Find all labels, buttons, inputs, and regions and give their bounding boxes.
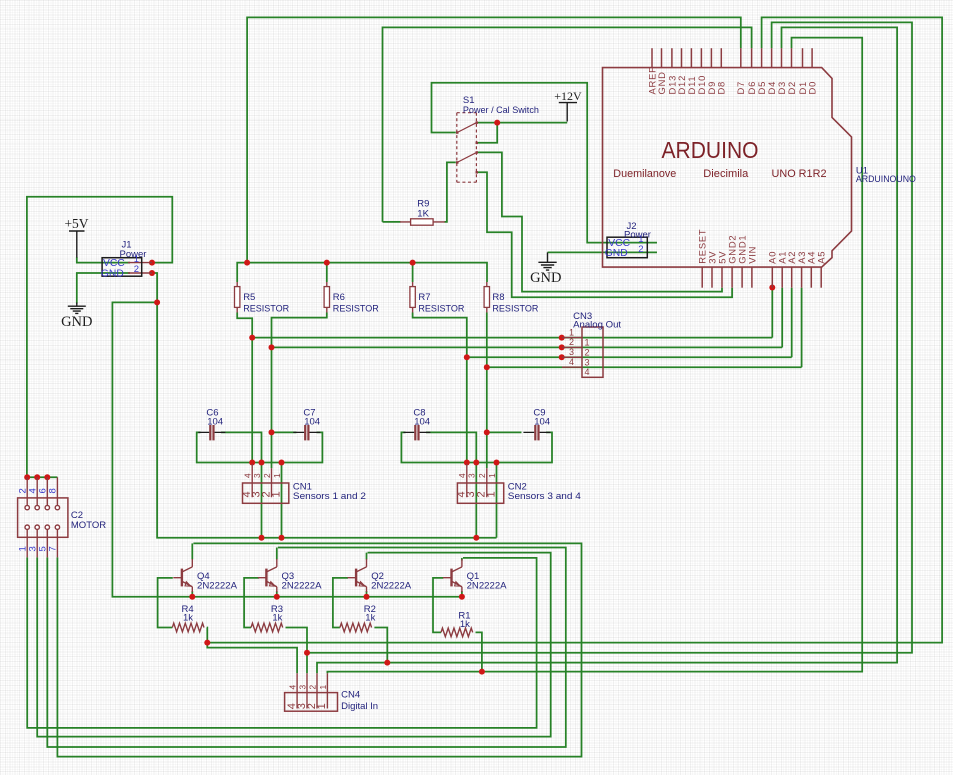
svg-text:RESISTOR: RESISTOR bbox=[492, 303, 538, 314]
junction J1 pin1 bbox=[149, 260, 155, 266]
wire J1 pin1 loop to C2 top bbox=[27, 197, 172, 478]
wire D5 to base drive line 1 bbox=[207, 17, 942, 642]
transistor Q1 bbox=[443, 559, 462, 592]
svg-text:R6: R6 bbox=[333, 292, 345, 303]
pin D4 of U1 bbox=[771, 48, 773, 67]
wire Q2 collector riser bbox=[366, 553, 368, 560]
wire R7 bottom to CN2 pin4 bbox=[413, 313, 467, 463]
wire C8 right lead to CN2 pin3 bbox=[426, 432, 476, 537]
pin D2 of U1 bbox=[791, 48, 793, 67]
wire Q4 collector riser bbox=[191, 543, 193, 559]
wire A0 drop bbox=[771, 288, 773, 338]
svg-text:1: 1 bbox=[270, 491, 282, 497]
junction CN3 pin1 bbox=[559, 335, 565, 341]
wire Q3 collector riser bbox=[276, 548, 278, 560]
svg-text:104: 104 bbox=[414, 416, 430, 427]
junction cap rail CN1 pin1 bbox=[279, 460, 285, 466]
connector CN3 bbox=[562, 327, 603, 377]
wire D4 to base drive line 2 bbox=[307, 22, 912, 652]
junction +12V node bbox=[494, 120, 500, 126]
svg-text:Sensors 1 and 2: Sensors 1 and 2 bbox=[293, 491, 366, 502]
svg-text:VCC: VCC bbox=[103, 258, 125, 269]
wire Q4 base to R4 bbox=[158, 578, 173, 628]
junction CN3 pin3 bbox=[559, 354, 565, 360]
svg-text:R8: R8 bbox=[492, 292, 504, 303]
junction ground rail CN1 pin3 bbox=[259, 535, 265, 541]
connector CN2 bbox=[457, 464, 503, 503]
svg-text:Digital In: Digital In bbox=[341, 701, 378, 712]
wire R6 top stub bbox=[326, 263, 328, 282]
pin RESET of U1 bbox=[701, 267, 703, 288]
wire Q3 emitter drop bbox=[276, 591, 278, 597]
wire C7 left lead from junction bbox=[272, 431, 297, 433]
pin D1 of U1 bbox=[802, 48, 804, 67]
junction R5 on analog rail1 bbox=[249, 335, 255, 341]
junction C7 left lead bbox=[269, 429, 275, 435]
wire R1 leg to drive line 4 bbox=[476, 632, 482, 671]
svg-text:2N2222A: 2N2222A bbox=[371, 580, 412, 591]
svg-text:RESISTOR: RESISTOR bbox=[333, 303, 379, 314]
svg-text:D2: D2 bbox=[786, 81, 797, 95]
pin D10 of U1 bbox=[700, 48, 702, 67]
svg-text:GND: GND bbox=[101, 268, 124, 279]
svg-text:+5V: +5V bbox=[64, 216, 88, 231]
resistor R3 bbox=[251, 623, 283, 632]
pin D5 of U1 bbox=[761, 48, 763, 67]
junction C2 pin4 bbox=[34, 474, 40, 480]
svg-text:1k: 1k bbox=[460, 619, 470, 630]
svg-text:104: 104 bbox=[534, 416, 550, 427]
wire C8 left loop to cap rail bbox=[401, 432, 552, 462]
capacitor C6 bbox=[198, 425, 225, 440]
wire GND branch left and down to emitter rail bbox=[112, 302, 462, 596]
svg-text:1: 1 bbox=[487, 473, 497, 478]
junction R7 on analog rail3 bbox=[464, 354, 470, 360]
junction R4 drive line bbox=[204, 640, 210, 646]
wire C6 left loop to cap rail bbox=[197, 432, 323, 462]
wire Q2 base to R2 bbox=[333, 578, 348, 628]
pin D9 of U1 bbox=[710, 48, 712, 67]
wire C2 pin1 to Q1 collector loop bbox=[27, 557, 536, 728]
junction Q3 emitter bbox=[274, 594, 280, 600]
svg-text:2N2222A: 2N2222A bbox=[467, 580, 508, 591]
wire S1 upper contact to +12V bbox=[478, 122, 567, 124]
svg-text:GND: GND bbox=[530, 270, 561, 286]
svg-text:1k: 1k bbox=[272, 613, 282, 624]
junction C2 pin2 bbox=[24, 474, 30, 480]
pin D0 of U1 bbox=[811, 48, 813, 67]
junction R8 on analog rail4 bbox=[484, 364, 490, 370]
svg-text:4: 4 bbox=[585, 367, 590, 377]
wire R2 leg to drive line 3 bbox=[374, 628, 387, 663]
pin A5 of U1 bbox=[820, 267, 822, 288]
svg-text:2: 2 bbox=[262, 473, 272, 478]
junction ground rail CN1 pin1 bbox=[279, 535, 285, 541]
svg-text:104: 104 bbox=[304, 416, 320, 427]
resistor R2 bbox=[340, 623, 372, 632]
junction R2 drive line bbox=[384, 660, 390, 666]
resistor R4 bbox=[172, 623, 204, 632]
pin AREF of U1 bbox=[651, 48, 653, 67]
svg-text:RESISTOR: RESISTOR bbox=[418, 303, 464, 314]
wire R6 bottom to CN1 pin2 bbox=[272, 313, 327, 469]
resistor R8 bbox=[484, 282, 489, 313]
svg-text:2: 2 bbox=[638, 244, 643, 255]
svg-text:1k: 1k bbox=[365, 613, 375, 624]
svg-text:+12V: +12V bbox=[554, 89, 582, 103]
wire R9 right to S1 lower pole bbox=[445, 162, 456, 222]
wire R4 leg to CN4 pin4 bbox=[207, 628, 297, 674]
svg-text:4: 4 bbox=[569, 357, 574, 367]
svg-text:Analog Out: Analog Out bbox=[573, 319, 621, 330]
wire CN1 pin1 drop bbox=[281, 463, 283, 538]
svg-text:Sensors 3 and 4: Sensors 3 and 4 bbox=[508, 491, 581, 502]
capacitor C7 bbox=[293, 425, 320, 440]
svg-text:D7: D7 bbox=[735, 81, 746, 95]
junction GND branch bbox=[154, 299, 160, 305]
svg-text:2: 2 bbox=[585, 347, 590, 357]
pin 5V of U1 bbox=[721, 267, 723, 288]
svg-text:3: 3 bbox=[297, 685, 307, 690]
connector C2 bbox=[18, 477, 68, 557]
svg-text:1: 1 bbox=[585, 338, 590, 348]
wire R8 bottom to CN2 pin2 bbox=[486, 313, 488, 469]
resistor R1 bbox=[441, 628, 473, 637]
svg-text:Power / Cal Switch: Power / Cal Switch bbox=[463, 105, 539, 116]
svg-text:1: 1 bbox=[316, 703, 328, 709]
svg-text:3: 3 bbox=[467, 473, 477, 478]
junction Q2 emitter bbox=[364, 594, 370, 600]
wire A3 drop bbox=[801, 288, 803, 368]
junction cap rail CN2 pin3 bbox=[473, 460, 479, 466]
wire R7 top stub bbox=[412, 263, 414, 282]
pin D13 of U1 bbox=[671, 48, 673, 67]
svg-text:1: 1 bbox=[485, 491, 497, 497]
wire Q1 base to R1 bbox=[433, 578, 443, 633]
svg-text:GND: GND bbox=[605, 248, 628, 259]
connector J1 bbox=[102, 258, 152, 277]
junction Q1 emitter bbox=[459, 594, 465, 600]
junction CN3 pin2 bbox=[559, 344, 565, 350]
module U1 ARDUINOUNO board outline bbox=[603, 68, 852, 268]
junction cap rail CN1 pin3 bbox=[259, 460, 265, 466]
resistor R7 bbox=[410, 282, 415, 313]
connector J2 bbox=[607, 237, 647, 258]
wire Q3 base to R3 bbox=[244, 578, 259, 628]
junction J1 pin2 bbox=[149, 270, 155, 276]
svg-text:8: 8 bbox=[48, 488, 59, 493]
pin GND2 of U1 bbox=[731, 267, 733, 288]
svg-text:2: 2 bbox=[307, 685, 317, 690]
wire J1 GND to ground symbol bbox=[77, 273, 130, 304]
junction cap rail CN2 pin4 bbox=[464, 460, 470, 466]
wire resistor top rail R5-R8 bbox=[237, 263, 487, 282]
svg-text:MOTOR: MOTOR bbox=[71, 520, 106, 531]
svg-text:2: 2 bbox=[134, 264, 139, 275]
junction cap rail CN2 pin1 bbox=[494, 460, 500, 466]
ground symbol GND near J2 bbox=[538, 252, 556, 270]
pin D7 of U1 bbox=[740, 48, 742, 67]
svg-text:2N2222A: 2N2222A bbox=[197, 580, 238, 591]
svg-text:2: 2 bbox=[569, 337, 574, 347]
svg-text:4: 4 bbox=[457, 473, 467, 478]
wire R5 bottom to CN1 pin4 bbox=[237, 313, 252, 463]
svg-text:D8: D8 bbox=[716, 81, 727, 95]
svg-text:104: 104 bbox=[207, 416, 223, 427]
pin A3 of U1 bbox=[801, 267, 803, 288]
svg-text:R7: R7 bbox=[418, 292, 430, 303]
svg-text:Diecimila: Diecimila bbox=[703, 168, 748, 180]
svg-text:1: 1 bbox=[318, 685, 328, 690]
transistor Q3 bbox=[258, 559, 277, 592]
wire C9 left lead from junction bbox=[487, 431, 522, 433]
wire S1 lower contact2 to GND2 pin bbox=[478, 172, 732, 297]
pin D3 of U1 bbox=[781, 48, 783, 67]
capacitor C9 bbox=[523, 425, 550, 440]
svg-text:2: 2 bbox=[477, 473, 487, 478]
wire A2 drop bbox=[791, 288, 793, 358]
svg-text:Duemilanove: Duemilanove bbox=[613, 168, 676, 180]
wire GND symbol to J2 GND bbox=[548, 251, 658, 253]
pin D12 of U1 bbox=[681, 48, 683, 67]
wire A1 drop bbox=[781, 288, 783, 348]
wire R9 left lead bbox=[383, 221, 401, 223]
pin A1 of U1 bbox=[781, 267, 783, 288]
svg-text:1k: 1k bbox=[183, 613, 193, 624]
svg-text:1: 1 bbox=[272, 473, 282, 478]
svg-text:RESISTOR: RESISTOR bbox=[243, 303, 289, 314]
wire Q4 emitter drop bbox=[191, 591, 193, 597]
junction R6 top bbox=[324, 260, 330, 266]
svg-text:1K: 1K bbox=[417, 209, 429, 220]
junction C9 left lead bbox=[484, 429, 490, 435]
pin D11 of U1 bbox=[690, 48, 692, 67]
wire Q2 emitter drop bbox=[366, 591, 368, 597]
wire C2 pin3 to Q2 collector loop bbox=[37, 553, 551, 737]
pin A2 of U1 bbox=[791, 267, 793, 288]
transistor Q2 bbox=[348, 559, 367, 592]
resistor R5 bbox=[235, 282, 240, 313]
wire D6 to R9 bbox=[383, 27, 752, 222]
wire analog rail 1 to A0 bbox=[252, 337, 772, 339]
junction cap rail CN1 pin4 bbox=[249, 460, 255, 466]
junction R7 top bbox=[410, 260, 416, 266]
power +5V supply symbol bbox=[69, 231, 85, 258]
wire S1 lower contact1 to 5V pin bbox=[478, 152, 722, 291]
svg-text:2N2222A: 2N2222A bbox=[282, 580, 323, 591]
junction R1 drive line bbox=[479, 669, 485, 675]
pin A4 of U1 bbox=[810, 267, 812, 288]
svg-text:3: 3 bbox=[569, 347, 574, 357]
wire C2 pin5 to Q3 collector loop bbox=[47, 548, 566, 748]
resistor R9 bbox=[400, 219, 445, 225]
wire C6 right lead to CN1 pin3 bbox=[221, 432, 262, 537]
wire analog rail 4 to A3 bbox=[487, 366, 802, 368]
svg-text:A5: A5 bbox=[816, 251, 827, 264]
pin 3V of U1 bbox=[711, 267, 713, 288]
svg-text:VIN: VIN bbox=[746, 246, 757, 264]
wire Q1 emitter drop bbox=[461, 591, 463, 597]
resistor R6 bbox=[324, 282, 329, 313]
wire R3 leg to CN4 pin3 bbox=[286, 628, 308, 674]
pin D8 of U1 bbox=[720, 48, 722, 67]
switch S1 bbox=[456, 113, 478, 183]
junction Q4 emitter bbox=[189, 594, 195, 600]
pin GND of U1 bbox=[661, 48, 663, 67]
junction A0 pin bbox=[769, 285, 775, 291]
wire S1 upper contact link bbox=[478, 123, 497, 143]
svg-text:ARDUINO: ARDUINO bbox=[662, 137, 759, 163]
svg-text:R5: R5 bbox=[243, 292, 255, 303]
wire D7 top loop to resistor rail bbox=[247, 17, 741, 262]
wire analog rail 2 to A1 bbox=[272, 346, 783, 348]
junction R3 drive line bbox=[304, 650, 310, 656]
svg-text:ARDUINOUNO: ARDUINOUNO bbox=[856, 174, 916, 185]
pin GND1 of U1 bbox=[741, 267, 743, 288]
svg-text:UNO R1R2: UNO R1R2 bbox=[772, 168, 827, 180]
wire +5V to J1 VCC bbox=[77, 257, 130, 263]
wire C2 top pin rail bbox=[27, 476, 58, 478]
wire analog rail 3 to A2 bbox=[467, 356, 792, 358]
wire C2 pin7 to Q4 collector loop bbox=[57, 543, 581, 756]
capacitor C8 bbox=[403, 425, 430, 440]
pin VIN of U1 bbox=[751, 267, 753, 288]
pin A0 of U1 bbox=[771, 267, 773, 288]
svg-text:GND: GND bbox=[61, 314, 92, 330]
svg-text:D0: D0 bbox=[807, 81, 818, 95]
svg-text:3: 3 bbox=[585, 357, 590, 367]
svg-text:7: 7 bbox=[48, 546, 59, 551]
wire Q1 collector riser bbox=[461, 558, 463, 561]
junction ground rail CN2 pin3 bbox=[473, 535, 479, 541]
svg-text:4: 4 bbox=[288, 685, 298, 690]
pin D6 of U1 bbox=[751, 48, 753, 67]
junction R6 on analog rail2 bbox=[269, 344, 275, 350]
junction D7 on resistor rail bbox=[244, 260, 250, 266]
svg-text:3: 3 bbox=[252, 473, 262, 478]
junction C2 pin6 bbox=[44, 474, 50, 480]
ground symbol GND under J1 bbox=[68, 303, 86, 314]
wire D3 to base drive line 3 bbox=[317, 27, 897, 673]
transistor Q4 bbox=[173, 559, 192, 592]
connector CN4 bbox=[285, 673, 338, 711]
wire CN2 pin1 drop bbox=[496, 463, 498, 538]
wire D2 to base drive line 4 bbox=[327, 38, 862, 674]
power +12V supply symbol bbox=[559, 103, 577, 122]
connector CN1 bbox=[243, 464, 289, 503]
svg-text:CN4: CN4 bbox=[341, 690, 360, 701]
wire J1 pin2 GND bus down to sensor ground rail bbox=[152, 273, 497, 538]
wire S1 upper pole to J2 VCC bbox=[432, 83, 658, 243]
svg-text:GND: GND bbox=[656, 71, 667, 94]
